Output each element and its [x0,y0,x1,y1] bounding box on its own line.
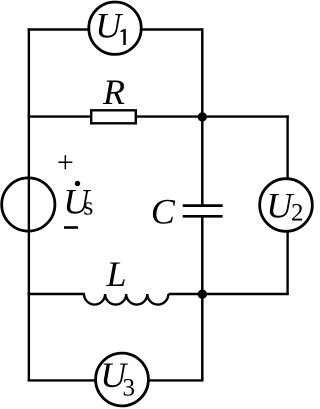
voltmeter U1 (circle) [89,2,141,54]
wire right rail [286,115,288,294]
voltmeter U3 (circle) [96,353,149,406]
voltmeter U2 (circle) [260,179,313,232]
wire resistor row [28,115,289,117]
svg-text:C: C [151,191,176,231]
svg-text:2: 2 [291,200,304,227]
voltage source Us (circle) [2,178,55,231]
wire middle vertical upper [201,28,204,205]
wire left rail [28,28,30,381]
svg-text:3: 3 [123,375,136,402]
svg-text:L: L [106,254,127,294]
label minus [64,226,78,229]
junction node bottom [198,290,207,299]
capacitor C top plate [183,204,223,207]
svg-text:s: s [83,192,93,221]
wire inductor row right [169,293,289,295]
wire inductor row left [28,293,85,295]
svg-text:+: + [57,146,74,179]
wire top [28,28,203,30]
inductor L (coil) [84,294,168,305]
label U1 subscript 1 [120,29,125,45]
resistor R (box) [91,110,136,123]
junction node top [198,112,207,121]
wire bottom [28,379,204,381]
svg-text:U: U [95,5,123,45]
label Us dot [75,181,80,186]
capacitor C bottom plate [183,215,223,218]
svg-text:R: R [102,72,125,112]
wire middle vertical lower [201,216,204,380]
